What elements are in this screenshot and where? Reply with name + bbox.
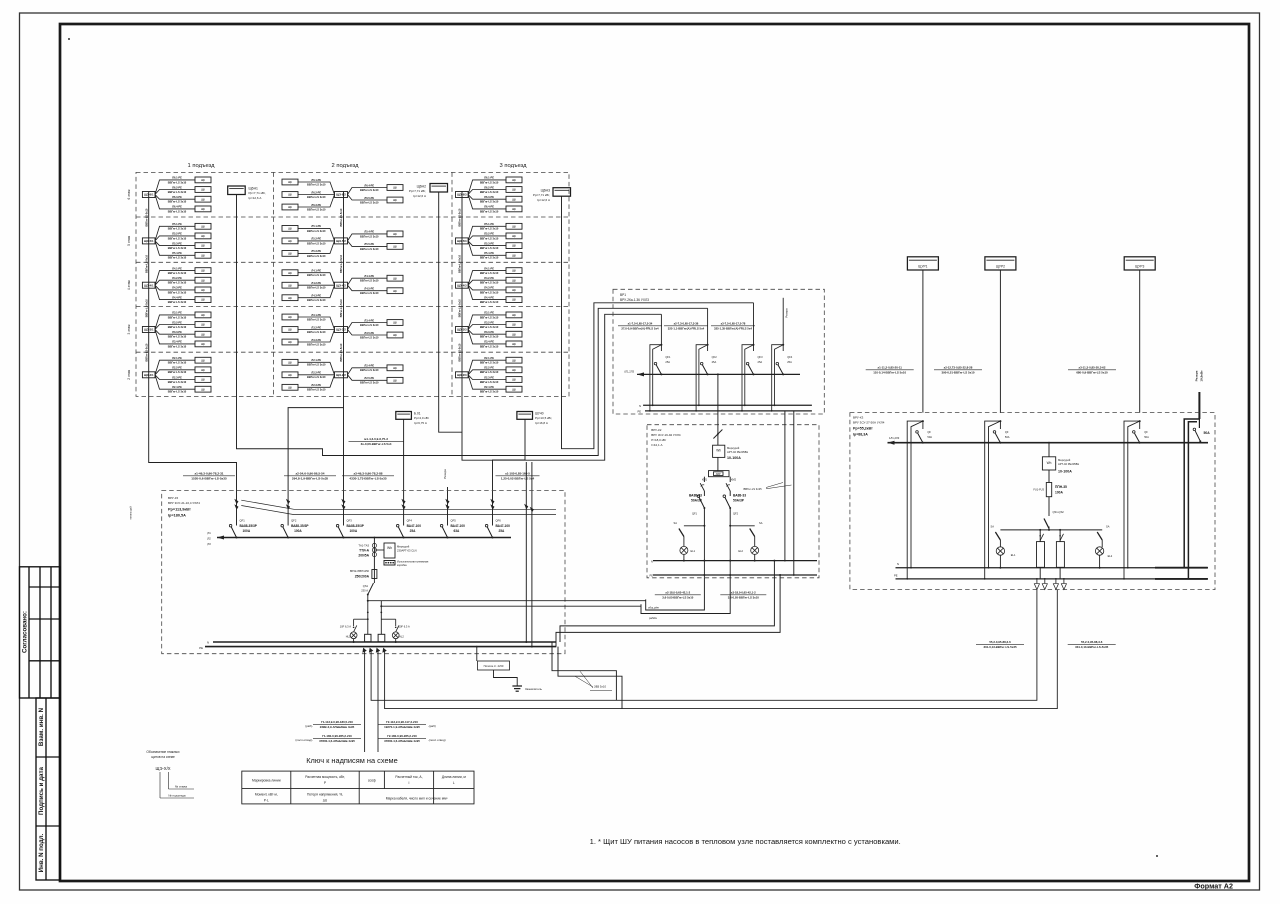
svg-text:Iр=12,6 А: Iр=12,6 А xyxy=(249,196,262,200)
reserve feeder wire xyxy=(1198,392,1200,419)
svg-text:Л5.3-РЕ: Л5.3-РЕ xyxy=(311,249,321,253)
svg-text:Л3.3-РЕ: Л3.3-РЕ xyxy=(311,338,321,342)
svg-text:ВВГнг-LS 3х10: ВВГнг-LS 3х10 xyxy=(480,256,499,260)
house panel Щ6Н3 xyxy=(553,188,571,197)
svg-text:ЩК: ЩК xyxy=(512,207,517,211)
svg-text:АРТ-02 РЕ2358Н: АРТ-02 РЕ2358Н xyxy=(1058,462,1079,466)
svg-text:ЩЭ-6/2: ЩЭ-6/2 xyxy=(336,193,346,197)
pump feeder box Б.01 xyxy=(396,412,412,420)
svg-text:х2-12,73-0,85-22,8-28: х2-12,73-0,85-22,8-28 xyxy=(944,366,973,370)
svg-text:N: N xyxy=(651,559,653,563)
svg-text:ЩК: ЩК xyxy=(512,332,517,336)
svg-text:Л5.1-РЕ: Л5.1-РЕ xyxy=(172,222,182,226)
svg-text:ЩК: ЩК xyxy=(512,178,517,182)
svg-text:ВРУ 3СУ-19-92 УХЛ4: ВРУ 3СУ-19-92 УХЛ4 xyxy=(651,433,681,437)
flat board ЩК xyxy=(195,322,211,328)
svg-text:ВВГнг-LS 3х35: ВВГнг-LS 3х35 xyxy=(744,487,763,491)
svg-text:ЩЭ-Х/Х: ЩЭ-Х/Х xyxy=(155,766,170,771)
svg-text:1520-0,6-ВВГнг-LS-5х35: 1520-0,6-ВВГнг-LS-5х35 xyxy=(191,476,227,480)
svg-text:QS1-QS2: QS1-QS2 xyxy=(1053,510,1065,514)
floor panel ЩЭ-2/1 xyxy=(142,372,155,378)
svg-text:ЕL2: ЕL2 xyxy=(1108,554,1113,558)
floor panel ЩЭ-5/2 xyxy=(335,238,348,244)
svg-text:ВВГнг-LS 3х10: ВВГнг-LS 3х10 xyxy=(360,381,379,385)
svg-text:Момент, кВт·м,: Момент, кВт·м, xyxy=(255,793,278,797)
svg-text:ЩК: ЩК xyxy=(512,234,517,238)
K3 fuse xyxy=(1048,470,1050,483)
flat board ЩК xyxy=(506,377,522,383)
reserve N-PE cores xyxy=(1184,419,1199,568)
wire to flat box xyxy=(468,375,506,389)
svg-text:РЕ: РЕ xyxy=(894,574,898,578)
wire to flat box xyxy=(155,285,195,290)
K2 lamp branch right xyxy=(729,525,731,527)
svg-text:ВВГнг-LS 3х10: ВВГнг-LS 3х10 xyxy=(168,325,187,329)
svg-text:10-100А: 10-100А xyxy=(1058,470,1072,474)
svg-text:Л6.2-РЕ: Л6.2-РЕ xyxy=(172,185,182,189)
svg-text:N: N xyxy=(207,641,209,645)
wire ШУ40 to QF6 xyxy=(493,419,526,502)
thick N-PE right segment xyxy=(1155,567,1208,569)
svg-text:ВВГнг-LS 3х10: ВВГнг-LS 3х10 xyxy=(307,317,326,321)
svg-text:25А: 25А xyxy=(712,360,717,364)
VRU-K2 dashed enclosure xyxy=(647,425,819,578)
current transformer TT xyxy=(373,538,375,568)
svg-text:FU1-FU3: FU1-FU3 xyxy=(1033,488,1044,492)
svg-text:х3-7,5-0,65-17,5-78: х3-7,5-0,65-17,5-78 xyxy=(721,322,746,326)
sidebar bottom block xyxy=(36,698,60,880)
circuit breaker QF4 xyxy=(398,527,403,538)
svg-text:ВРУ 3СУ-27-50А УХЛ4: ВРУ 3СУ-27-50А УХЛ4 xyxy=(853,421,885,425)
svg-text:№ этажа: № этажа xyxy=(175,785,188,789)
svg-text:ЩК: ЩК xyxy=(201,207,206,211)
svg-text:ЩК: ЩК xyxy=(201,332,206,336)
wire to flat box xyxy=(468,195,506,209)
VR1 inlet N-PE cores QF3 xyxy=(742,345,754,411)
svg-text:ЕL2: ЕL2 xyxy=(738,549,743,553)
svg-text:ЩК: ЩК xyxy=(393,232,398,236)
svg-text:390-0,51-ВВГнг-LS 5х10: 390-0,51-ВВГнг-LS 5х10 xyxy=(942,370,975,374)
svg-text:Рр=7,71 кВт,: Рр=7,71 кВт, xyxy=(249,191,266,195)
flat board ЩК xyxy=(195,223,211,229)
stack riser bus entrance 2 xyxy=(343,192,345,503)
wire to flat box xyxy=(298,228,335,241)
floor panel ЩЭ-6/1 xyxy=(142,192,155,198)
svg-text:Л6.5-РЕ: Л6.5-РЕ xyxy=(364,196,374,200)
flat board ЩК xyxy=(195,386,211,392)
flat board ЩК xyxy=(506,252,522,258)
circuit breaker QF5 xyxy=(442,527,447,538)
svg-text:1,25-0,02-ВВГнг-LS 5х4: 1,25-0,02-ВВГнг-LS 5х4 xyxy=(501,476,535,480)
flat board ЩК xyxy=(282,270,298,276)
svg-text:25А: 25А xyxy=(499,529,506,533)
svg-text:ЩК: ЩК xyxy=(288,227,293,231)
K2 PE link wire to VRU xyxy=(556,575,780,647)
svg-text:Полоса ст. 4х50: Полоса ст. 4х50 xyxy=(484,664,504,668)
wire to flat box xyxy=(348,188,388,195)
flat board ЩК xyxy=(282,282,298,288)
svg-text:3 подъезд: 3 подъезд xyxy=(500,163,528,169)
svg-text:ВА88-35/3Р: ВА88-35/3Р xyxy=(240,524,258,528)
wire to flat box xyxy=(155,195,195,209)
VR1 PE bar xyxy=(645,410,812,412)
svg-text:SА: SА xyxy=(674,521,678,525)
svg-text:L: L xyxy=(453,781,455,785)
svg-text:ЩК: ЩК xyxy=(512,313,517,317)
svg-text:ВВГнг-LS-5х10: ВВГнг-LS-5х10 xyxy=(459,299,462,318)
svg-text:№ подъезда: № подъезда xyxy=(168,794,186,798)
svg-text:Л6.1-РЕ: Л6.1-РЕ xyxy=(172,176,182,180)
flat board ЩК xyxy=(195,357,211,363)
svg-text:Wh: Wh xyxy=(387,546,392,550)
svg-text:Инв. N подл.: Инв. N подл. xyxy=(38,833,45,872)
svg-text:ППН-35: ППН-35 xyxy=(1055,485,1067,489)
wire to flat box xyxy=(468,370,506,375)
svg-text:Меркурий: Меркурий xyxy=(397,545,410,549)
svg-text:ВВГнг-LS 3х10: ВВГнг-LS 3х10 xyxy=(307,182,326,186)
floor row separator xyxy=(136,306,569,308)
feeder risers to VRU-K3 xyxy=(525,462,527,642)
riser wire ЩУР3 xyxy=(1139,270,1141,413)
svg-text:ВВГнг-LS 3х10: ВВГнг-LS 3х10 xyxy=(168,344,187,348)
svg-text:Г1-113,9-0,96-180,5-210: Г1-113,9-0,96-180,5-210 xyxy=(321,720,353,724)
svg-text:ВВГнг-LS 3х10: ВВГнг-LS 3х10 xyxy=(480,325,499,329)
svg-text:ЩЭ-2/2: ЩЭ-2/2 xyxy=(336,373,346,377)
svg-text:ВВГнг-LS 3х10: ВВГнг-LS 3х10 xyxy=(480,370,499,374)
svg-text:(Л1,2Л3: (Л1,2Л3 xyxy=(624,370,634,374)
svg-text:АВР: АВР xyxy=(716,473,721,476)
svg-text:QF1: QF1 xyxy=(665,355,671,359)
svg-text:10F 6,3 А: 10F 6,3 А xyxy=(340,625,352,629)
wire to flat box xyxy=(155,360,195,375)
K3 reserve breaker 50A xyxy=(1198,419,1200,428)
svg-text:325-1,1-ВВГнг(А)-FRLS 5х4: 325-1,1-ВВГнг(А)-FRLS 5х4 xyxy=(668,326,705,330)
svg-text:ВВГнг-LS 3х10: ВВГнг-LS 3х10 xyxy=(168,370,187,374)
svg-text:ВВГнг-LS 3х10: ВВГнг-LS 3х10 xyxy=(480,361,499,365)
svg-text:ЩК: ЩК xyxy=(288,180,293,184)
svg-text:ВВГнг-LS 3х10: ВВГнг-LS 3х10 xyxy=(168,300,187,304)
svg-text:ВВГнг-LS 3х10: ВВГнг-LS 3х10 xyxy=(360,247,379,251)
K2 N link wire to VRU xyxy=(560,561,774,642)
flat board ЩК xyxy=(387,332,403,338)
svg-text:ВВГнг-LS 3х10: ВВГнг-LS 3х10 xyxy=(307,388,326,392)
svg-text:ВВГнг-LS 3х10: ВВГнг-LS 3х10 xyxy=(480,246,499,250)
wire Б.01 to QF4 xyxy=(403,419,405,502)
cable loop terminal 2 xyxy=(378,634,385,642)
svg-text:Резерв: Резерв xyxy=(784,308,788,318)
flat board ЩК xyxy=(387,320,403,326)
svg-text:ЩК: ЩК xyxy=(393,333,398,337)
svg-text:х2-18,0-0,65-42,1-2: х2-18,0-0,65-42,1-2 xyxy=(665,591,690,595)
svg-text:ВВГнг-LS 3х10: ВВГнг-LS 3х10 xyxy=(480,271,499,275)
svg-text:QF2: QF2 xyxy=(733,512,739,516)
svg-text:50А: 50А xyxy=(927,435,932,439)
wire to flat box xyxy=(468,241,506,246)
svg-text:ВРУ-15: ВРУ-15 xyxy=(168,496,179,500)
svg-text:ЩК: ЩК xyxy=(512,269,517,273)
wire to flat box xyxy=(155,370,195,375)
svg-text:Резерв: Резерв xyxy=(1195,371,1199,382)
flat board ЩК xyxy=(387,377,403,383)
flat board ЩК xyxy=(506,243,522,249)
svg-text:37800-4,6-АПвБбШв 4х95: 37800-4,6-АПвБбШв 4х95 xyxy=(384,739,420,743)
contactor KM1 xyxy=(700,483,704,491)
svg-text:питающий: питающий xyxy=(129,506,133,520)
svg-text:Iр=12,6 А: Iр=12,6 А xyxy=(413,194,426,198)
svg-text:ЩК: ЩК xyxy=(288,328,293,332)
K3 inlet N-PE cores ЩУР3 xyxy=(1124,421,1140,579)
svg-text:х3-11,3-0,85-20,3-62: х3-11,3-0,85-20,3-62 xyxy=(1079,366,1106,370)
svg-text:ВВГнг-LS 3х10: ВВГнг-LS 3х10 xyxy=(360,279,379,283)
svg-text:РЕ: РЕ xyxy=(650,574,654,578)
K2 contactor box xyxy=(717,457,719,470)
svg-text:ЩК: ЩК xyxy=(512,323,517,327)
flat board ЩК xyxy=(195,233,211,239)
VRU-K2 supply tap xyxy=(717,373,719,375)
flat board ЩК xyxy=(195,187,211,193)
flat board ЩК xyxy=(282,359,298,365)
svg-text:ВА47-100: ВА47-100 xyxy=(407,524,422,528)
svg-text:Л2.1-РЕ: Л2.1-РЕ xyxy=(172,356,182,360)
wire to flat box xyxy=(468,190,506,195)
wire to flat box xyxy=(155,190,195,195)
svg-text:Г2-180-0,96-285,2-210: Г2-180-0,96-285,2-210 xyxy=(387,734,417,738)
svg-text:Л4.3-РЕ: Л4.3-РЕ xyxy=(484,286,494,290)
svg-text:ВРУ-К2: ВРУ-К2 xyxy=(651,428,662,432)
flat board ЩК xyxy=(195,243,211,249)
svg-text:Длина линии, м: Длина линии, м xyxy=(442,775,467,779)
flat board ЩК xyxy=(387,365,403,371)
svg-text:х3-18,0-0,65-42,1-2: х3-18,0-0,65-42,1-2 xyxy=(731,591,756,595)
wire to flat box xyxy=(468,226,506,241)
svg-text:Рр=7,71 кВт,: Рр=7,71 кВт, xyxy=(533,193,550,197)
svg-text:ВВГнг-LS 3х10: ВВГнг-LS 3х10 xyxy=(480,281,499,285)
svg-text:ТТИ-А: ТТИ-А xyxy=(359,549,369,553)
svg-text:Л4.3-РЕ: Л4.3-РЕ xyxy=(311,294,321,298)
svg-text:QF: QF xyxy=(1144,430,1148,434)
wire to flat box xyxy=(298,273,335,286)
svg-text:ЩК: ЩК xyxy=(288,340,293,344)
svg-text:ВВГнг-LS 3х10: ВВГнг-LS 3х10 xyxy=(307,342,326,346)
wire to flat box xyxy=(155,325,195,330)
K2 main drops xyxy=(703,526,705,578)
flat board ЩК xyxy=(506,322,522,328)
svg-text:5 этаж: 5 этаж xyxy=(127,235,131,246)
svg-text:ЩК: ЩК xyxy=(288,239,293,243)
svg-text:Л5.4-РЕ: Л5.4-РЕ xyxy=(364,230,374,234)
svg-text:QF5: QF5 xyxy=(451,519,457,523)
svg-text:Л4.4-РЕ: Л4.4-РЕ xyxy=(484,295,494,299)
svg-text:Л6.1-РЕ: Л6.1-РЕ xyxy=(311,178,321,182)
K3 meter Wh xyxy=(1042,457,1055,470)
svg-text:50А: 50А xyxy=(1005,435,1010,439)
PE bus extension to channel xyxy=(558,647,622,709)
flat board ЩК xyxy=(506,386,522,392)
svg-text:Л3.2-РЕ: Л3.2-РЕ xyxy=(484,320,494,324)
flat board ЩК xyxy=(195,268,211,274)
svg-text:Л5.3-РЕ: Л5.3-РЕ xyxy=(484,241,494,245)
flat board ЩК xyxy=(195,297,211,303)
floor panel ЩЭ-2/2 xyxy=(335,372,348,378)
svg-text:50А: 50А xyxy=(1144,435,1149,439)
svg-text:ВВГнг-LS 3х10: ВВГнг-LS 3х10 xyxy=(480,209,499,213)
svg-text:N: N xyxy=(639,404,641,408)
svg-text:ЩК: ЩК xyxy=(201,188,206,192)
svg-text:ВВГнг-LS 3х10: ВВГнг-LS 3х10 xyxy=(307,207,326,211)
wire to flat box xyxy=(298,284,335,286)
outgoing cable arrows xyxy=(362,648,366,653)
svg-text:Рр=4,0 кВт: Рр=4,0 кВт xyxy=(414,416,430,420)
VR1 riser wire QF3 xyxy=(753,303,755,345)
svg-text:PE: PE xyxy=(638,410,642,414)
svg-text:Iр=6,75 А: Iр=6,75 А xyxy=(414,421,427,425)
svg-text:ЩК: ЩК xyxy=(393,245,398,249)
svg-text:55,2-0,95-88,3-6: 55,2-0,95-88,3-6 xyxy=(989,640,1011,644)
circuit breaker QF2 xyxy=(283,527,288,538)
svg-text:ВВГнг-LS 3х10: ВВГнг-LS 3х10 xyxy=(168,281,187,285)
svg-text:Л6.2-РЕ: Л6.2-РЕ xyxy=(311,190,321,194)
svg-text:Меркурий: Меркурий xyxy=(727,446,740,450)
K2 breaker QF2 xyxy=(725,498,730,509)
svg-text:ЩК: ЩК xyxy=(201,224,206,228)
svg-text:HL2: HL2 xyxy=(399,634,404,638)
svg-text:Л6.3-РЕ: Л6.3-РЕ xyxy=(484,195,494,199)
svg-text:ВВГнг-LS 3х10: ВВГнг-LS 3х10 xyxy=(168,361,187,365)
svg-text:Л2.3-РЕ: Л2.3-РЕ xyxy=(311,383,321,387)
wire to flat box xyxy=(468,285,506,290)
svg-text:общ.р/вч: общ.р/вч xyxy=(648,606,660,610)
svg-text:Расчетный ток, А,: Расчетный ток, А, xyxy=(395,775,422,779)
svg-text:Л2.2-РЕ: Л2.2-РЕ xyxy=(484,366,494,370)
svg-text:200/5А: 200/5А xyxy=(358,554,369,558)
riser wire Щ6Н3 to VR1 xyxy=(562,196,754,449)
VR1 bus xyxy=(637,373,800,375)
flat board ЩК xyxy=(506,277,522,283)
svg-text:Подпись и дата: Подпись и дата xyxy=(38,766,45,814)
wire to flat box xyxy=(348,285,388,291)
svg-text:Л3.1-РЕ: Л3.1-РЕ xyxy=(484,311,494,315)
flat board ЩК xyxy=(506,233,522,239)
svg-text:ЩК: ЩК xyxy=(288,252,293,256)
svg-text:QF4: QF4 xyxy=(787,355,793,359)
svg-text:230АРТ-03 CLN: 230АРТ-03 CLN xyxy=(397,549,417,553)
svg-text:Формат А2: Формат А2 xyxy=(1194,882,1233,891)
VRU N bus xyxy=(213,641,556,643)
circuit breaker QF6 xyxy=(487,527,492,538)
svg-text:ЩК: ЩК xyxy=(393,321,398,325)
flat board ЩК xyxy=(282,238,298,244)
svg-text:ЩК: ЩК xyxy=(288,373,293,377)
svg-text:Л4.4-РЕ: Л4.4-РЕ xyxy=(364,274,374,278)
svg-text:ЩК: ЩК xyxy=(512,188,517,192)
svg-text:ВВГнг-LS 3х10: ВВГнг-LS 3х10 xyxy=(480,190,499,194)
svg-text:QF2: QF2 xyxy=(291,519,297,523)
svg-text:ВВГнг-LS-5х10: ВВГнг-LS-5х10 xyxy=(145,299,148,318)
svg-text:4 этаж: 4 этаж xyxy=(127,279,131,290)
svg-text:ВВГнг-LS 3х10: ВВГнг-LS 3х10 xyxy=(168,335,187,339)
svg-text:ЩК: ЩК xyxy=(288,385,293,389)
svg-text:ЩК: ЩК xyxy=(512,224,517,228)
VR1 inlet N-PE cores QF2 xyxy=(696,345,708,411)
switch-fuse block xyxy=(373,568,375,581)
svg-text:Л4.2-РЕ: Л4.2-РЕ xyxy=(311,281,321,285)
feeder riser QF5 xyxy=(447,502,449,526)
svg-text:ЩК: ЩК xyxy=(512,253,517,257)
svg-text:(посл.отвод)-: (посл.отвод)- xyxy=(295,738,313,742)
flat board ЩК xyxy=(282,179,298,185)
K2 lamp branch left xyxy=(703,525,705,527)
circuit breaker QF3 xyxy=(338,527,343,538)
output junction lines xyxy=(368,600,646,602)
svg-text:ЩК: ЩК xyxy=(201,234,206,238)
svg-text:QF3: QF3 xyxy=(758,355,764,359)
K3 lamp branch right xyxy=(1097,532,1102,540)
svg-text:ВА88-33: ВА88-33 xyxy=(733,494,746,498)
svg-text:ЩК: ЩК xyxy=(201,253,206,257)
K2 breaker QF1 xyxy=(699,498,704,509)
flat board ЩК xyxy=(195,252,211,258)
svg-text:ВВГнг-LS 3х10: ВВГнг-LS 3х10 xyxy=(168,290,187,294)
VR1 breaker QF3 xyxy=(753,345,755,351)
svg-text:Л5.2-РЕ: Л5.2-РЕ xyxy=(172,232,182,236)
svg-text:Л4.1-РЕ: Л4.1-РЕ xyxy=(311,269,321,273)
svg-text:50А/3Р: 50А/3Р xyxy=(691,498,703,502)
svg-text:19,9кВт: 19,9кВт xyxy=(1200,370,1204,382)
svg-text:3 этаж: 3 этаж xyxy=(127,324,131,335)
svg-text:ВВГнг-LS 3х10: ВВГнг-LS 3х10 xyxy=(360,188,379,192)
floor panel ЩЭ-2/3 xyxy=(456,372,469,378)
svg-text:ЩУР3: ЩУР3 xyxy=(1135,264,1144,268)
svg-text:ВВГнг-LS 3х10: ВВГнг-LS 3х10 xyxy=(480,344,499,348)
svg-text:ЩК: ЩК xyxy=(201,313,206,317)
floor panel ЩЭ-3/2 xyxy=(335,327,348,333)
wire to flat box xyxy=(155,271,195,286)
flat board ЩК xyxy=(282,295,298,301)
svg-text:ЩК: ЩК xyxy=(201,378,206,382)
wire to flat box xyxy=(298,362,335,375)
stack 3 down wire xyxy=(461,396,463,432)
flat board ЩК xyxy=(195,377,211,383)
flat board ЩК xyxy=(506,287,522,293)
wire to flat box xyxy=(155,315,195,330)
svg-text:Л4.5-РЕ: Л4.5-РЕ xyxy=(364,287,374,291)
wire to flat box xyxy=(468,180,506,195)
svg-text:I=42,1 А: I=42,1 А xyxy=(651,443,662,447)
svg-text:Л5.1-РЕ: Л5.1-РЕ xyxy=(484,222,494,226)
wire to flat box xyxy=(468,241,506,255)
svg-text:ВВГнг-LS-5х10: ВВГнг-LS-5х10 xyxy=(459,254,462,273)
svg-text:ЩК: ЩК xyxy=(201,269,206,273)
svg-text:Г1-180-0,96-285,2-210: Г1-180-0,96-285,2-210 xyxy=(322,734,352,738)
svg-text:PE: PE xyxy=(199,646,203,650)
svg-text:КМ2: КМ2 xyxy=(731,478,737,482)
svg-text:соsф: соsф xyxy=(368,779,376,783)
svg-text:Л3.4-РЕ: Л3.4-РЕ xyxy=(364,318,374,322)
svg-text:ВВГнг-LS 3х10: ВВГнг-LS 3х10 xyxy=(480,390,499,394)
svg-text:QF4: QF4 xyxy=(407,519,413,523)
svg-text:ЕL1: ЕL1 xyxy=(1011,553,1016,557)
svg-text:Г2-113,2-0,96-117,2-210: Г2-113,2-0,96-117,2-210 xyxy=(386,720,418,724)
riser plug arrow xyxy=(401,499,405,505)
svg-text:Л2.1-РЕ: Л2.1-РЕ xyxy=(311,358,321,362)
svg-text:100А: 100А xyxy=(350,529,358,533)
svg-text:ВВГнг-LS-5х10: ВВГнг-LS-5х10 xyxy=(145,343,148,362)
svg-text:ВВГнг-LS-5х10: ВВГнг-LS-5х10 xyxy=(145,254,148,273)
stack 2 jog wire to QF2 xyxy=(288,408,343,502)
svg-text:110-0,14-ВВГнг-LS 5х10: 110-0,14-ВВГнг-LS 5х10 xyxy=(873,370,906,374)
svg-text:1 подъезд: 1 подъезд xyxy=(188,163,216,169)
svg-text:ВВГнг-LS 3х10: ВВГнг-LS 3х10 xyxy=(168,271,187,275)
